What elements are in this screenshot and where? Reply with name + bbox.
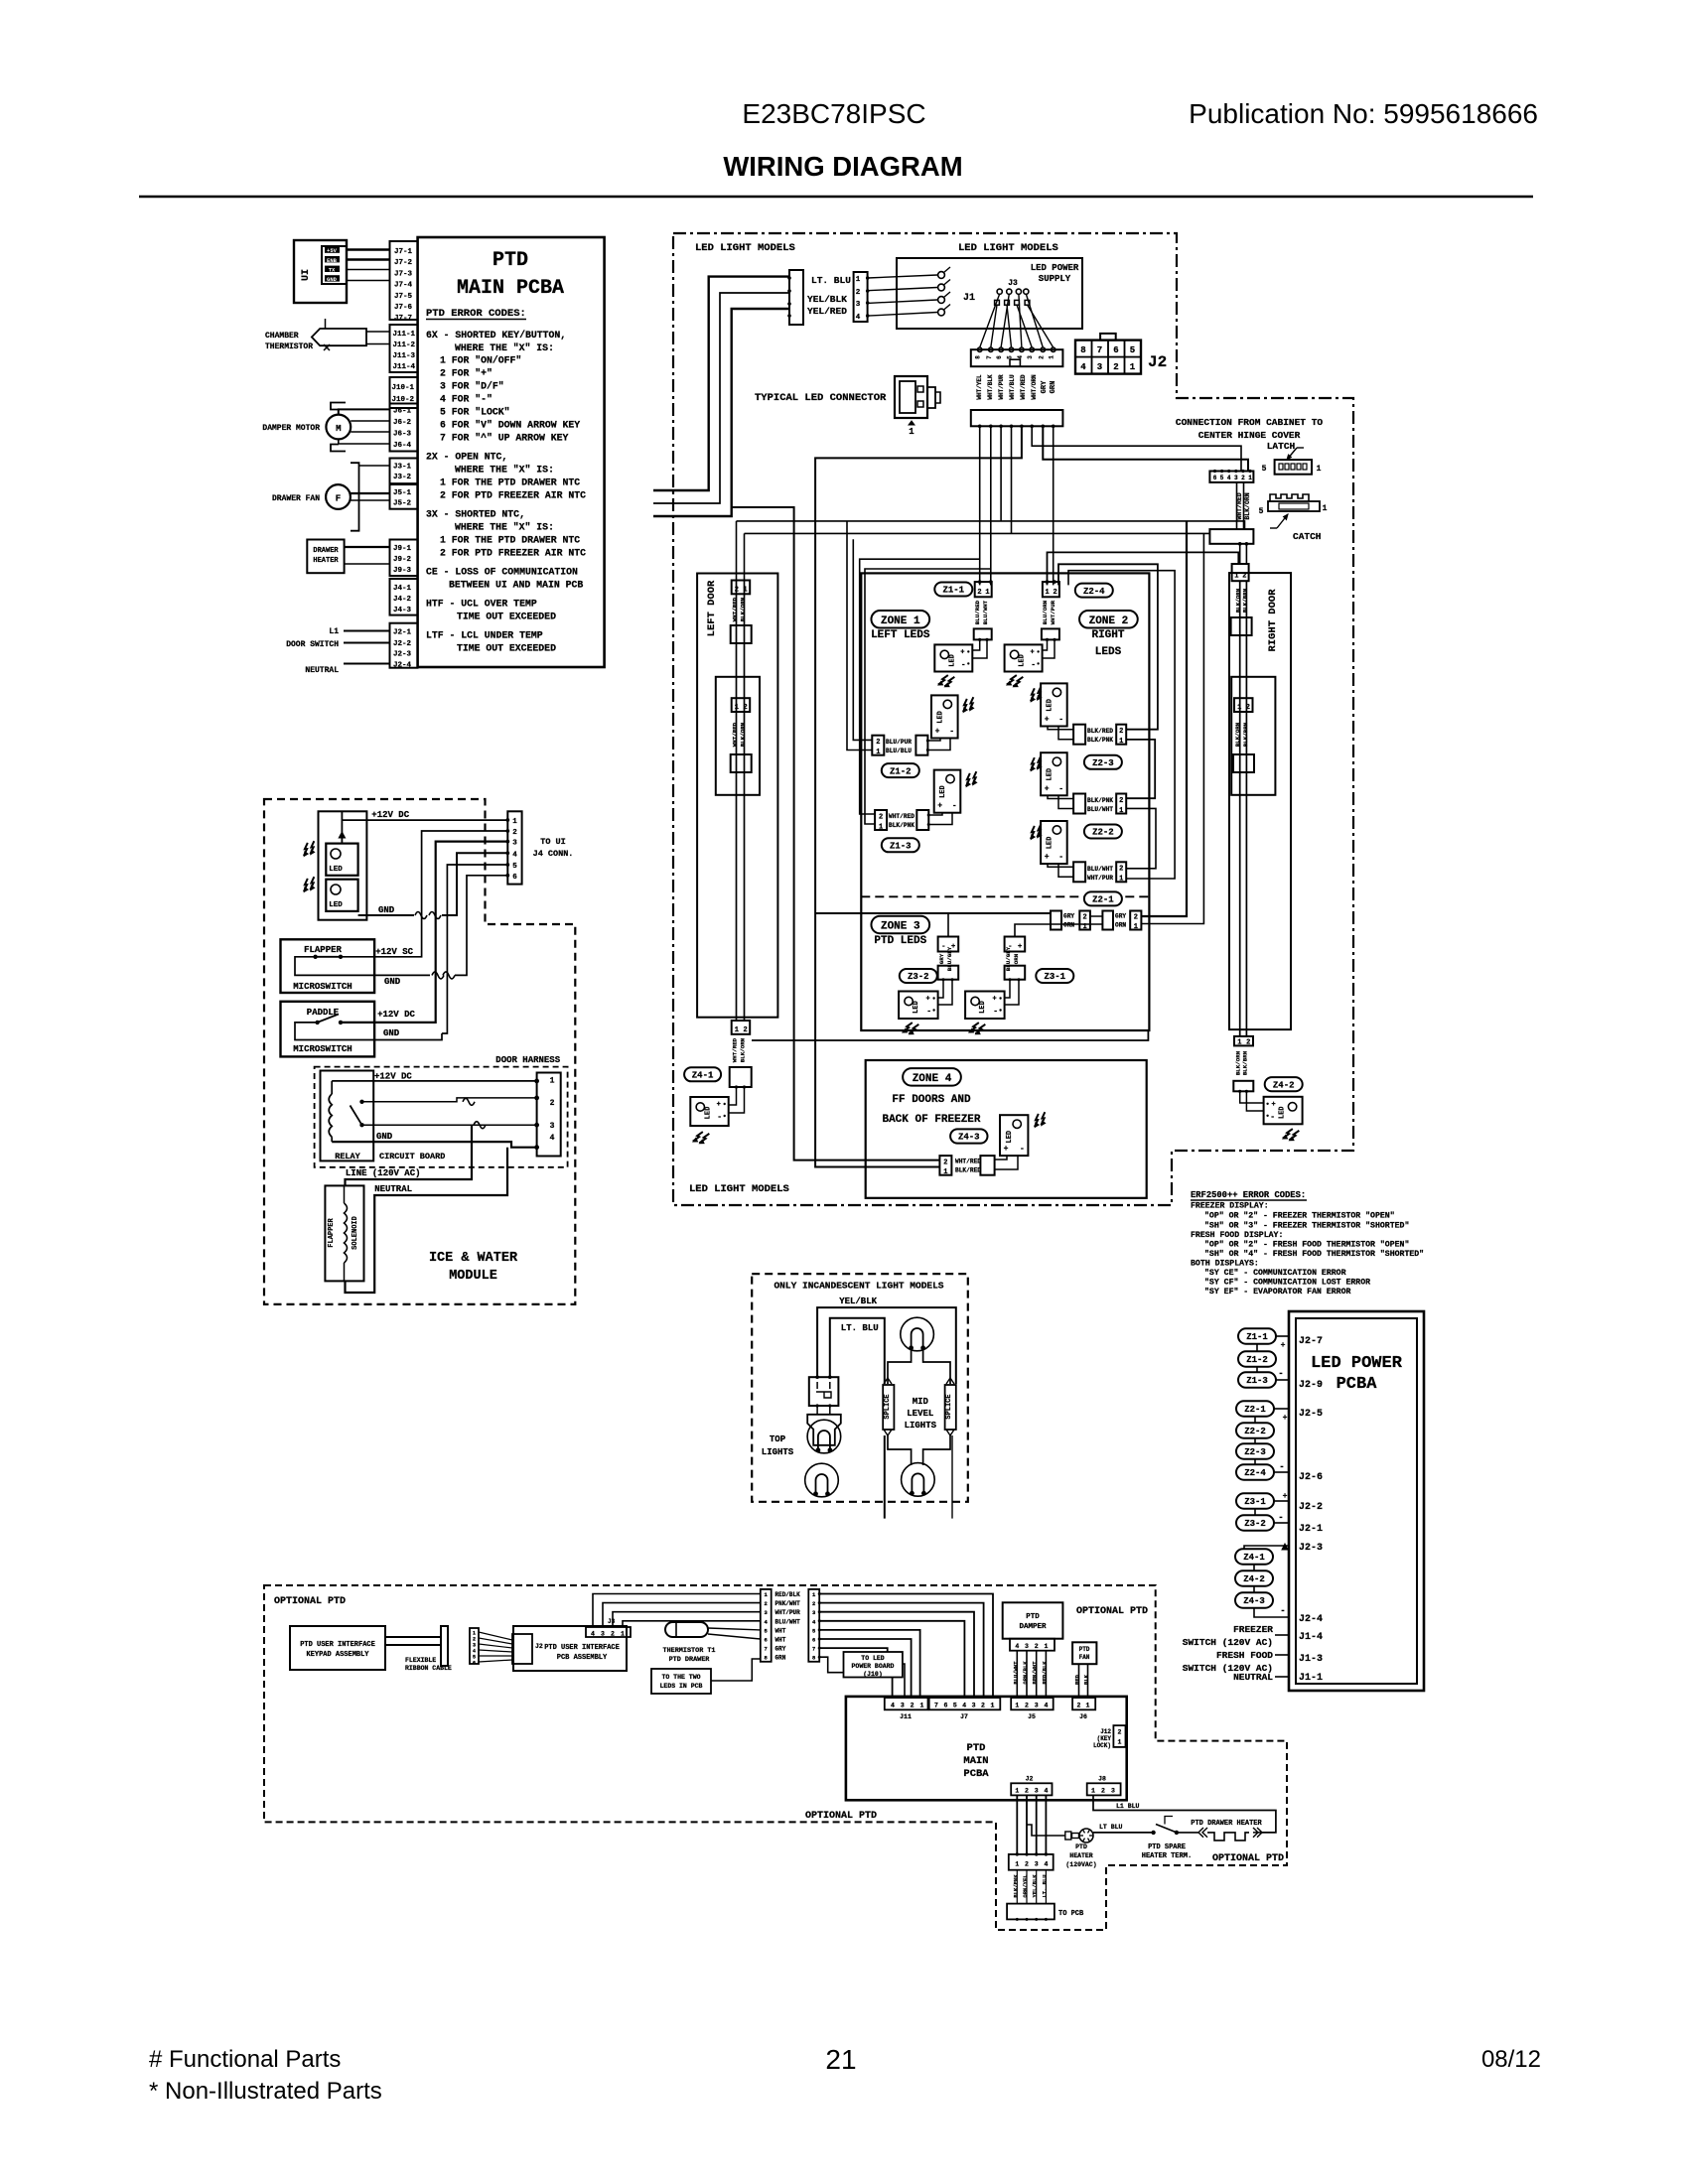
- svg-text:J7-5: J7-5: [394, 293, 413, 301]
- Z1-2 oval: [882, 763, 919, 777]
- zone3 F wires: [938, 980, 943, 998]
- bolts Z2-4: [1007, 673, 1024, 688]
- svg-text:J11: J11: [900, 1713, 912, 1720]
- top lights bulb 2: [805, 1463, 839, 1497]
- svg-text:2: 2: [1025, 1788, 1029, 1795]
- svg-text:2 FOR PTD FREEZER AIR NTC: 2 FOR PTD FREEZER AIR NTC: [440, 548, 586, 559]
- svg-text:ORN/YEL: ORN/YEL: [1022, 1874, 1029, 1898]
- zone3 F plug: [938, 966, 959, 980]
- svg-text:2: 2: [1038, 355, 1045, 359]
- svg-text:GRY: GRY: [938, 953, 945, 964]
- svg-text:2: 2: [981, 1703, 985, 1709]
- latch connector: [1275, 460, 1312, 475]
- svg-text:J4-1: J4-1: [393, 585, 412, 593]
- svg-text:SUPPLY: SUPPLY: [1039, 274, 1071, 284]
- svg-text:WHT: WHT: [775, 1637, 786, 1644]
- svg-text:WHT/RED: WHT/RED: [1020, 374, 1027, 400]
- Z2-1 wires module to plug: [1048, 864, 1073, 867]
- svg-text:GRY: GRY: [1041, 380, 1049, 393]
- LED module Z2-2: [1041, 752, 1067, 795]
- svg-text:+: +: [1004, 1145, 1009, 1154]
- mid bulb wires to splices: [888, 1350, 912, 1384]
- svg-text:J2: J2: [535, 1643, 543, 1650]
- right door box: [1229, 573, 1291, 1029]
- svg-text:1: 1: [1091, 1788, 1095, 1795]
- heater thermal switch: [1151, 1831, 1155, 1835]
- svg-text:MODULE: MODULE: [449, 1269, 497, 1284]
- drawer heater box: [307, 540, 344, 574]
- svg-text:GRY: GRY: [1063, 913, 1074, 920]
- svg-text:BLU/ORN: BLU/ORN: [1042, 600, 1049, 624]
- svg-text:Z4-3: Z4-3: [958, 1133, 980, 1143]
- svg-text:PTD USER INTERFACE: PTD USER INTERFACE: [300, 1641, 375, 1649]
- svg-text:1: 1: [1323, 504, 1328, 513]
- Z4 oval chain: [1235, 1549, 1273, 1565]
- LED power supply box: [897, 258, 1082, 329]
- ptd heater icon: [1079, 1829, 1093, 1843]
- wires strip A to J3: [593, 1594, 761, 1628]
- svg-text:LED: LED: [913, 1001, 920, 1014]
- svg-text:(J10): (J10): [863, 1671, 883, 1678]
- svg-text:J11-3: J11-3: [393, 352, 416, 360]
- svg-text:PTD: PTD: [1079, 1646, 1090, 1653]
- svg-text:WHERE THE "X" IS:: WHERE THE "X" IS:: [455, 465, 554, 476]
- svg-text:TO UI: TO UI: [540, 837, 566, 847]
- svg-text:5: 5: [1007, 355, 1014, 359]
- svg-text:WIRING DIAGRAM: WIRING DIAGRAM: [723, 151, 962, 182]
- svg-text:LTF - LCL UNDER TEMP: LTF - LCL UNDER TEMP: [426, 630, 543, 641]
- svg-text:2: 2: [765, 1600, 768, 1607]
- svg-text:1: 1: [1119, 807, 1123, 815]
- Z2-4 connector: [1043, 582, 1059, 597]
- J2 strip bottom: [1011, 1783, 1052, 1795]
- svg-text:"SH" OR "3" - FREEZER THERMIST: "SH" OR "3" - FREEZER THERMISTOR "SHORTE…: [1204, 1221, 1409, 1231]
- svg-text:Z4-2: Z4-2: [1273, 1080, 1295, 1090]
- svg-text:PCB ASSEMBLY: PCB ASSEMBLY: [557, 1654, 608, 1662]
- LED module Z2-4: [1005, 644, 1043, 671]
- bolts Z3-2: [903, 1021, 919, 1035]
- svg-text:BLU/WHT: BLU/WHT: [1087, 866, 1113, 873]
- svg-text:+: +: [1018, 943, 1022, 951]
- svg-text:7: 7: [765, 1646, 768, 1653]
- svg-text:WHT/RED: WHT/RED: [955, 1159, 981, 1165]
- LED module Z3-1: [965, 992, 1005, 1020]
- svg-text:4: 4: [1080, 362, 1086, 372]
- svg-text:"OP" OR "2" - FRESH FOOD THERM: "OP" OR "2" - FRESH FOOD THERMISTOR "OPE…: [1204, 1240, 1409, 1250]
- LED feed arrow: [341, 811, 343, 843]
- svg-text:4: 4: [856, 314, 861, 322]
- svg-text:TO PCB: TO PCB: [1058, 1910, 1084, 1918]
- wire bus V3 to zone3: [1141, 521, 1187, 916]
- svg-text:J3: J3: [608, 1618, 616, 1625]
- svg-text:WHT/BLU: WHT/BLU: [1009, 374, 1016, 400]
- svg-text:LED: LED: [704, 1107, 712, 1120]
- svg-text:2 FOR PTD FREEZER AIR NTC: 2 FOR PTD FREEZER AIR NTC: [440, 490, 586, 501]
- left door bottom plug: [730, 1067, 752, 1087]
- thermistor wires: [708, 1628, 761, 1630]
- svg-text:4 FOR "-": 4 FOR "-": [440, 394, 492, 405]
- wire Z2-4 to J2-6: [1274, 1471, 1289, 1473]
- svg-text:4: 4: [591, 1631, 595, 1638]
- svg-text:J3-1: J3-1: [393, 464, 412, 472]
- svg-text:J5: J5: [1028, 1713, 1036, 1720]
- svg-text:3 FOR "D/F": 3 FOR "D/F": [440, 381, 504, 392]
- svg-text:J6-4: J6-4: [393, 442, 412, 450]
- svg-text:J1-4: J1-4: [1299, 1632, 1323, 1643]
- typical LED connector icon: [895, 376, 927, 418]
- svg-text:J7-4: J7-4: [394, 282, 413, 290]
- ribbon fan wires: [479, 1632, 512, 1640]
- svg-text:1: 1: [1248, 475, 1252, 481]
- svg-text:RELAY: RELAY: [335, 1152, 360, 1161]
- drawer heater element: [1253, 1832, 1261, 1834]
- svg-text:3: 3: [1035, 1861, 1039, 1868]
- svg-text:LED POWER: LED POWER: [1311, 1354, 1403, 1373]
- svg-text:+12V SC: +12V SC: [375, 947, 413, 957]
- svg-text:RED/BLK: RED/BLK: [1041, 1661, 1048, 1685]
- svg-text:-: -: [1020, 1145, 1025, 1154]
- svg-text:Z4-2: Z4-2: [1243, 1574, 1265, 1584]
- wire Z1-2 up A: [853, 539, 872, 740]
- wires strip B to PCBA: [819, 1594, 993, 1699]
- left door inner box: [716, 677, 760, 795]
- wire strip B pin7 to J10 box top: [819, 1648, 888, 1652]
- svg-text:GND: GND: [383, 1028, 400, 1038]
- relay coil: [329, 1094, 332, 1137]
- paddle left loop: [295, 1023, 442, 1040]
- connector J9 strip: [390, 540, 418, 577]
- ribbon plug: [512, 1634, 532, 1664]
- zones box: [861, 573, 1149, 1030]
- ptd damper strip: [1010, 1639, 1055, 1651]
- svg-text:3: 3: [856, 301, 861, 309]
- svg-text:Z1-1: Z1-1: [942, 586, 964, 596]
- svg-text:CE - LOSS OF COMMUNICATION: CE - LOSS OF COMMUNICATION: [426, 567, 578, 578]
- svg-text:PTD DRAWER HEATER: PTD DRAWER HEATER: [1191, 1820, 1262, 1828]
- svg-text:FLAPPER: FLAPPER: [328, 1217, 336, 1247]
- zone separator dashed: [861, 895, 1149, 897]
- svg-text:MAIN: MAIN: [963, 1755, 988, 1767]
- wire J2-3 to Z4-1: [1244, 1546, 1289, 1549]
- svg-text:4: 4: [512, 851, 517, 859]
- svg-text:PTD USER INTERFACE: PTD USER INTERFACE: [544, 1644, 620, 1652]
- svg-text:GND: GND: [384, 977, 401, 987]
- svg-text:J2-6: J2-6: [1299, 1472, 1323, 1483]
- svg-text:3: 3: [512, 840, 517, 848]
- svg-text:J7-7: J7-7: [394, 315, 412, 323]
- svg-text:2X - OPEN NTC,: 2X - OPEN NTC,: [426, 452, 507, 463]
- svg-text:HEATER: HEATER: [313, 557, 339, 565]
- svg-text:1: 1: [1086, 1703, 1090, 1709]
- svg-text:3: 3: [1097, 362, 1102, 372]
- svg-text:6: 6: [943, 1703, 947, 1709]
- svg-text:ORN: ORN: [1063, 922, 1074, 929]
- svg-text:DOOR SWITCH: DOOR SWITCH: [286, 640, 339, 649]
- svg-text:GND: GND: [378, 905, 395, 915]
- svg-text:8: 8: [975, 355, 982, 359]
- svg-text:1: 1: [1119, 876, 1123, 884]
- svg-text:"OP" OR "2" - FREEZER THERMIST: "OP" OR "2" - FREEZER THERMISTOR "OPEN": [1204, 1211, 1395, 1221]
- bolts Z4-2: [1283, 1127, 1300, 1142]
- bolts Z1-3: [963, 771, 980, 786]
- svg-text:+: +: [1045, 784, 1050, 793]
- svg-text:(KEY: (KEY: [1097, 1735, 1112, 1742]
- wires drawer heater to J9: [345, 546, 390, 548]
- svg-text:BLK: BLK: [1083, 1674, 1090, 1685]
- wire Z1-2 up B: [847, 521, 872, 751]
- svg-text:6X - SHORTED KEY/BUTTON,: 6X - SHORTED KEY/BUTTON,: [426, 330, 566, 341]
- right door inner connector: [1234, 698, 1253, 712]
- svg-text:Z2-3: Z2-3: [1092, 758, 1114, 768]
- wire bundle p3: [1000, 426, 1002, 521]
- Z2-4 oval: [1075, 584, 1113, 598]
- svg-text:+: +: [1281, 1341, 1286, 1350]
- svg-text:DRAWER: DRAWER: [313, 547, 339, 555]
- svg-text:"SH" OR "4" - FRESH FOOD THERM: "SH" OR "4" - FRESH FOOD THERMISTOR "SHO…: [1204, 1249, 1424, 1259]
- svg-text:2 FOR "+": 2 FOR "+": [440, 368, 492, 379]
- svg-text:J2-3: J2-3: [1299, 1543, 1323, 1554]
- bolts LED 2: [301, 877, 318, 891]
- ptd keypad assembly box: [290, 1626, 385, 1670]
- zone 4 oval: [903, 1068, 961, 1086]
- svg-text:TOP: TOP: [770, 1434, 786, 1444]
- svg-text:TO THE TWO: TO THE TWO: [661, 1674, 700, 1681]
- wire LT. BLU: [830, 1318, 885, 1384]
- svg-text:7 FOR "^" UP ARROW KEY: 7 FOR "^" UP ARROW KEY: [440, 433, 568, 444]
- UI connector 6-pin: [507, 811, 521, 884]
- svg-text:2: 2: [1246, 1038, 1250, 1046]
- svg-text:"SY CE" - COMMUNICATION ERROR: "SY CE" - COMMUNICATION ERROR: [1204, 1268, 1346, 1278]
- bolts LED 1: [301, 841, 318, 856]
- LED module Z3-2: [899, 992, 938, 1020]
- wire GND LED: [358, 914, 414, 916]
- svg-text:5: 5: [1220, 475, 1224, 481]
- damper motor M: [326, 415, 351, 440]
- left door wires: [736, 581, 738, 1022]
- svg-text:Z2-3: Z2-3: [1244, 1447, 1266, 1457]
- svg-text:2: 2: [1025, 1861, 1029, 1868]
- PTD MAIN PCBA box: [418, 237, 605, 667]
- svg-text:J7: J7: [960, 1713, 968, 1720]
- svg-text:+12V DC: +12V DC: [371, 810, 409, 820]
- svg-text:RED: RED: [1074, 1674, 1081, 1685]
- svg-text:LED LIGHT MODELS: LED LIGHT MODELS: [958, 242, 1058, 254]
- svg-text:1: 1: [1082, 923, 1086, 931]
- svg-text:BLU/WHT: BLU/WHT: [982, 600, 989, 624]
- Z4-3 plug: [980, 1156, 994, 1175]
- zone3 F feed stub: [947, 913, 949, 937]
- svg-text:BLU/PUR: BLU/PUR: [886, 739, 912, 746]
- svg-text:Z2-1: Z2-1: [1244, 1405, 1266, 1415]
- svg-text:3: 3: [1035, 1703, 1039, 1709]
- splice right: [945, 1385, 956, 1430]
- svg-text:LED: LED: [1046, 699, 1054, 712]
- wires damper to J5: [1016, 1651, 1018, 1698]
- wires hinge strips: [1236, 482, 1238, 529]
- left door top plug: [731, 625, 752, 643]
- svg-text:2: 2: [1035, 1643, 1039, 1650]
- svg-text:PCBA: PCBA: [1336, 1375, 1378, 1394]
- connector J5 strip: [390, 484, 418, 509]
- Z2-1 plug: [1073, 862, 1085, 882]
- wire bundle p5: [815, 426, 1022, 1166]
- svg-text:1: 1: [621, 1631, 625, 1638]
- Z2-2 oval: [1084, 825, 1122, 839]
- to pcb box: [1007, 1904, 1055, 1920]
- J12 key lock connector: [1113, 1725, 1125, 1747]
- UI connector: [322, 246, 347, 284]
- wire +12V DC to pin1: [342, 819, 507, 821]
- svg-text:Z2-2: Z2-2: [1244, 1427, 1266, 1436]
- wire link Z2-3 to Z2-2: [1126, 740, 1155, 798]
- svg-text:1: 1: [1130, 362, 1136, 372]
- wire LINE 120VAC: [346, 1125, 473, 1185]
- wire leds box to strip: [711, 1659, 761, 1681]
- relay contacts: [359, 1100, 363, 1104]
- svg-text:1 FOR "ON/OFF": 1 FOR "ON/OFF": [440, 355, 521, 366]
- svg-text:"SY CF" - COMMUNICATION LOST E: "SY CF" - COMMUNICATION LOST ERROR: [1204, 1278, 1370, 1288]
- wires drawer fan to strips: [359, 465, 390, 467]
- zone3 right chain group2 plug: [1102, 911, 1113, 930]
- wires UI to J7: [347, 248, 390, 251]
- Z1-3 oval: [882, 838, 919, 852]
- svg-text:+: +: [1283, 1414, 1288, 1423]
- ptd main pcba box: [846, 1697, 1127, 1800]
- door harness dashed box: [315, 1067, 568, 1167]
- svg-text:BETWEEN UI AND MAIN PCB: BETWEEN UI AND MAIN PCB: [449, 580, 583, 591]
- svg-text:J6-1: J6-1: [393, 408, 412, 416]
- svg-text:-: -: [961, 660, 966, 669]
- svg-text:J7-3: J7-3: [394, 270, 413, 278]
- svg-text:1: 1: [856, 276, 861, 284]
- svg-text:OPTIONAL PTD: OPTIONAL PTD: [805, 1811, 877, 1822]
- svg-text:1: 1: [1049, 355, 1055, 359]
- svg-text:WHT/RED: WHT/RED: [889, 813, 914, 820]
- svg-text:GRY: GRY: [1115, 913, 1126, 920]
- LED module Z2-1: [1041, 821, 1067, 864]
- svg-text:1: 1: [550, 1076, 555, 1085]
- splice left: [883, 1385, 894, 1430]
- ice water LED 2: [326, 880, 357, 911]
- svg-text:J7-2: J7-2: [394, 259, 413, 267]
- wire relay NC to pin3: [362, 1124, 537, 1126]
- svg-text:Z1-2: Z1-2: [890, 766, 912, 776]
- splice bottom wires: [884, 1430, 892, 1435]
- Z4-3 wires module to plug: [995, 1156, 1007, 1160]
- bolts Z4-3: [1032, 1112, 1049, 1127]
- svg-text:BLK/BRN: BLK/BRN: [1241, 1050, 1248, 1075]
- svg-text:FRESH FOOD DISPLAY:: FRESH FOOD DISPLAY:: [1191, 1231, 1283, 1240]
- zone3 right chain group2 pins: [1130, 911, 1141, 930]
- solenoid coil: [345, 1203, 348, 1263]
- svg-text:5: 5: [1130, 345, 1135, 355]
- svg-text:LATCH: LATCH: [1267, 441, 1296, 452]
- svg-text:Z1-2: Z1-2: [1246, 1355, 1268, 1365]
- LED power pcba outer box: [1289, 1311, 1424, 1691]
- svg-text:1: 1: [1117, 1739, 1121, 1746]
- svg-text:# Functional Parts: # Functional Parts: [149, 2046, 341, 2073]
- svg-text:2: 2: [1134, 913, 1138, 921]
- svg-text:2: 2: [977, 589, 981, 597]
- svg-text:J3: J3: [1008, 279, 1018, 288]
- svg-text:J6-3: J6-3: [393, 431, 412, 439]
- svg-text:5: 5: [1262, 465, 1267, 474]
- svg-text:J11-1: J11-1: [393, 331, 416, 339]
- connector J4 strip: [390, 579, 418, 615]
- svg-text:1: 1: [1046, 589, 1050, 597]
- svg-text:2: 2: [1119, 866, 1123, 874]
- LED module Z4-3: [1000, 1115, 1028, 1156]
- svg-text:5: 5: [1259, 507, 1264, 516]
- zone3 right chain group1 plug: [1051, 911, 1061, 930]
- svg-text:+12V DC: +12V DC: [374, 1072, 412, 1082]
- svg-text:BOTH DISPLAYS:: BOTH DISPLAYS:: [1191, 1260, 1259, 1269]
- zone3 G wires: [1005, 980, 1010, 998]
- svg-text:J9-1: J9-1: [393, 545, 412, 553]
- svg-text:BLU/RED: BLU/RED: [974, 600, 981, 624]
- drawer heater loop wire: [1093, 1795, 1276, 1833]
- J7 strip: [929, 1698, 1001, 1709]
- right door inner plug: [1233, 754, 1254, 772]
- ice water LED 1: [326, 844, 357, 876]
- svg-text:PCBA: PCBA: [963, 1768, 989, 1780]
- svg-text:3: 3: [1111, 1788, 1115, 1795]
- svg-text:WHT/PUR: WHT/PUR: [1087, 875, 1113, 882]
- svg-text:PTD ERROR CODES:: PTD ERROR CODES:: [426, 308, 526, 320]
- svg-text:2: 2: [1119, 728, 1123, 736]
- svg-text:TYPICAL LED CONNECTOR: TYPICAL LED CONNECTOR: [755, 392, 887, 404]
- mid lights top bulb: [901, 1317, 934, 1351]
- ice and water module boundary: [264, 799, 575, 1304]
- svg-text:PTD: PTD: [1026, 1613, 1040, 1621]
- svg-text:4: 4: [891, 1703, 895, 1709]
- bolts Z4-1: [693, 1130, 710, 1145]
- ptd ui pcb assembly box: [513, 1626, 627, 1671]
- svg-text:+: +: [1271, 1101, 1275, 1109]
- svg-text:J1: J1: [963, 293, 975, 304]
- zone3 top feed wire: [815, 912, 1051, 914]
- svg-text:6: 6: [1113, 345, 1118, 355]
- svg-text:5 FOR "LOCK": 5 FOR "LOCK": [440, 407, 510, 418]
- svg-text:Z2-1: Z2-1: [1092, 895, 1114, 905]
- svg-text:Z2-4: Z2-4: [1244, 1468, 1266, 1478]
- svg-text:PTD LEDS: PTD LEDS: [874, 935, 926, 947]
- wire J10 box to J11 pin3: [903, 1664, 905, 1698]
- svg-text:ZONE 2: ZONE 2: [1089, 615, 1129, 627]
- right door inner box: [1231, 677, 1275, 795]
- svg-text:THERMISTOR: THERMISTOR: [265, 342, 313, 351]
- Z1-1 wires to module: [972, 639, 979, 650]
- svg-text:+5V: +5V: [327, 247, 338, 254]
- svg-text:LED POWER: LED POWER: [1031, 263, 1079, 273]
- svg-text:1: 1: [876, 749, 880, 756]
- Z2-3 plug: [1073, 725, 1085, 745]
- svg-text:2: 2: [879, 813, 883, 821]
- Z2-3 oval: [1084, 755, 1122, 769]
- to the two leds box: [651, 1669, 711, 1694]
- svg-text:4: 4: [962, 1703, 966, 1709]
- relay box: [321, 1071, 374, 1161]
- svg-text:J2-7: J2-7: [1299, 1336, 1323, 1347]
- svg-text:LED LIGHT MODELS: LED LIGHT MODELS: [689, 1183, 789, 1195]
- svg-text:ORN/BLK: ORN/BLK: [1022, 1661, 1029, 1685]
- svg-text:J2: J2: [1148, 353, 1167, 371]
- svg-text:DRAWER FAN: DRAWER FAN: [272, 494, 320, 503]
- wire heater switch to icon: [1093, 1832, 1154, 1834]
- Z4-1 oval: [684, 1067, 721, 1081]
- hinge strip lower: [1209, 529, 1253, 544]
- svg-text:WHT: WHT: [775, 1627, 786, 1634]
